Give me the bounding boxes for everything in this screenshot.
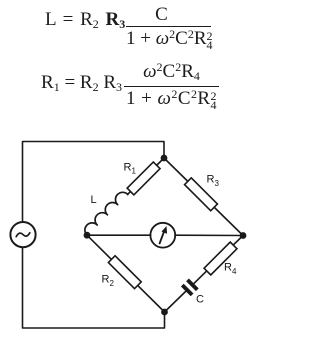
svg-text:R4: R4	[224, 262, 237, 277]
svg-text:R3: R3	[207, 174, 220, 189]
svg-text:R2: R2	[102, 274, 115, 289]
svg-text:L: L	[91, 194, 97, 206]
svg-text:R1: R1	[124, 162, 137, 176]
svg-text:C: C	[196, 294, 204, 306]
